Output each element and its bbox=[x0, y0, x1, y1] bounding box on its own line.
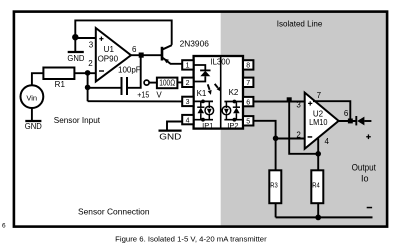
wire R4 bottom to rail bbox=[317, 203, 319, 217]
node pin6 junction (square) bbox=[287, 97, 292, 102]
IP1 current-source branch bbox=[205, 106, 214, 115]
pin box 4 bbox=[182, 115, 193, 124]
svg-text:2: 2 bbox=[186, 80, 190, 87]
svg-text:V: V bbox=[156, 90, 162, 99]
svg-text:2N3906: 2N3906 bbox=[180, 39, 210, 48]
op-amp U1 OP90 bbox=[96, 28, 131, 82]
wire pin4 stub down to R4 bbox=[317, 138, 319, 170]
svg-text:100Ω: 100Ω bbox=[159, 79, 175, 88]
wire inverting node down to feedback line bbox=[87, 73, 89, 101]
pin box 6 bbox=[243, 97, 253, 106]
svg-text:K1: K1 bbox=[197, 89, 207, 98]
pin box 1 bbox=[182, 60, 193, 69]
resistor 100 ohm bbox=[157, 78, 178, 89]
svg-text:8: 8 bbox=[246, 63, 250, 70]
svg-text:100pF: 100pF bbox=[118, 66, 141, 75]
ground GND (IL300 pin 4) bbox=[159, 129, 182, 131]
svg-text:GND: GND bbox=[159, 132, 181, 141]
wire +input bbox=[75, 37, 95, 39]
pin box 3 bbox=[182, 97, 193, 106]
wire pin7 V+ loop to output bbox=[313, 101, 350, 121]
capacitor C1 100pF bbox=[126, 77, 128, 95]
Q1 base bar bbox=[161, 47, 164, 61]
svg-text:5: 5 bbox=[246, 119, 250, 126]
terminal +15 V bbox=[144, 80, 149, 85]
wire IL300 pin 5 down to node A bbox=[253, 121, 275, 139]
wire node A down to R3 bbox=[275, 139, 277, 171]
IP2 diode branch bbox=[235, 102, 237, 108]
node +input/GND junction bbox=[72, 34, 78, 40]
node inverting input junction bbox=[85, 70, 91, 76]
diode D1 (output) bbox=[355, 116, 357, 125]
svg-text:Isolated Line: Isolated Line bbox=[277, 19, 323, 28]
node output junction (square) bbox=[348, 119, 353, 124]
light emission arrows bbox=[208, 84, 210, 90]
node A junction bbox=[273, 136, 279, 142]
isolated line shaded region bbox=[221, 12, 387, 227]
label + terminal bbox=[366, 136, 371, 137]
IP2 node dots bbox=[233, 100, 237, 104]
svg-text:6: 6 bbox=[132, 45, 137, 54]
optocoupler U3 IL300 package bbox=[194, 56, 243, 129]
resistor R4 bbox=[311, 170, 323, 203]
svg-text:6: 6 bbox=[344, 109, 349, 118]
isolation divider line bbox=[220, 57, 222, 128]
wire Vin top to R1 bbox=[32, 73, 44, 85]
Q1 emitter bbox=[162, 57, 182, 64]
svg-text:K2: K2 bbox=[229, 88, 239, 97]
pin box 7 bbox=[243, 78, 253, 87]
svg-text:6: 6 bbox=[2, 222, 6, 229]
wire R3 bottom to rail bbox=[275, 203, 277, 217]
op-amp U2 LM10 bbox=[305, 93, 339, 149]
IP1 diode branch bbox=[200, 101, 202, 107]
LED K1 bbox=[194, 65, 206, 70]
svg-text:7: 7 bbox=[246, 80, 250, 87]
node capacitor junction bbox=[85, 85, 91, 91]
wire junction to ground bbox=[74, 37, 76, 52]
node pin4 junction bbox=[315, 151, 321, 157]
svg-text:1: 1 bbox=[186, 63, 190, 70]
wire +15 to 100ohm bbox=[149, 82, 157, 84]
node U1 output junction (square) bbox=[139, 53, 144, 58]
svg-text:IP2: IP2 bbox=[227, 121, 238, 130]
wire junction down and across to U2 pin4 node bbox=[289, 102, 318, 154]
wire node A to U2 -input bbox=[276, 138, 305, 140]
svg-text:Output: Output bbox=[352, 163, 377, 173]
IP2 current-source branch bbox=[222, 106, 231, 115]
svg-text:2: 2 bbox=[296, 131, 301, 140]
photodiode IP1 bbox=[194, 100, 213, 102]
Q1 emitter arrow (PNP) bbox=[164, 58, 169, 63]
resistor R1 bbox=[43, 68, 74, 80]
wire capacitor to inverting node bbox=[88, 87, 122, 89]
svg-text:7: 7 bbox=[317, 91, 322, 100]
IP1 node dots bbox=[201, 100, 205, 104]
label - terminal bbox=[367, 207, 372, 209]
wire 100ohm to IL300 pin 2 bbox=[177, 81, 182, 83]
pin box 2 bbox=[182, 78, 193, 87]
wire feedback: output down to capacitor bbox=[127, 58, 141, 88]
voltage source Vin bbox=[21, 85, 44, 108]
svg-text:Sensor Connection: Sensor Connection bbox=[78, 208, 150, 217]
svg-text:R4: R4 bbox=[312, 180, 320, 189]
wire output minus rail bbox=[276, 216, 373, 218]
svg-text:GND: GND bbox=[25, 122, 42, 131]
wire R1 to U1 inverting input bbox=[74, 72, 95, 74]
wire noninverting rail: GND junction to Q1 collector bbox=[75, 20, 171, 45]
svg-text:GND: GND bbox=[67, 54, 84, 63]
svg-text:+15: +15 bbox=[137, 90, 149, 99]
svg-text:4: 4 bbox=[186, 117, 190, 124]
Q1 collector bbox=[162, 45, 172, 50]
svg-text:3: 3 bbox=[89, 41, 94, 50]
wire Vin bottom to ground bbox=[31, 108, 33, 121]
svg-text:3: 3 bbox=[296, 100, 301, 109]
wire U2 output bbox=[339, 120, 356, 122]
svg-text:Vin: Vin bbox=[26, 94, 37, 103]
svg-text:4: 4 bbox=[324, 137, 329, 146]
svg-text:LM10: LM10 bbox=[309, 118, 328, 127]
photodiode IP2 bbox=[224, 101, 243, 103]
svg-text:Figure 6. Isolated 1-5 V, 4-20: Figure 6. Isolated 1-5 V, 4-20 mA transm… bbox=[115, 235, 267, 244]
svg-text:IL300: IL300 bbox=[210, 57, 230, 66]
svg-text:IP1: IP1 bbox=[202, 121, 213, 130]
wire IL300 pin 6 to U2 +input bbox=[253, 101, 304, 103]
ground GND (U1 +input) bbox=[68, 51, 84, 53]
pin box 5 bbox=[243, 116, 253, 125]
pin box 8 bbox=[243, 60, 253, 69]
svg-text:Sensor Input: Sensor Input bbox=[54, 116, 101, 125]
svg-text:OP90: OP90 bbox=[98, 54, 119, 63]
svg-text:Io: Io bbox=[361, 173, 369, 183]
svg-text:6: 6 bbox=[246, 99, 250, 106]
wire feedback line to IL300 pin 3 bbox=[88, 100, 183, 102]
wire U1 output to Q1 base bbox=[131, 54, 162, 56]
svg-text:R3: R3 bbox=[270, 180, 278, 189]
svg-text:U1: U1 bbox=[104, 45, 115, 54]
svg-text:2: 2 bbox=[88, 59, 93, 68]
ground GND (below Vin) bbox=[25, 120, 41, 122]
node rail junction bbox=[315, 215, 321, 221]
svg-text:3: 3 bbox=[186, 99, 190, 106]
resistor R3 bbox=[269, 170, 281, 203]
svg-text:R1: R1 bbox=[55, 80, 66, 89]
wire IL300 pin 4 to ground bbox=[167, 122, 182, 131]
